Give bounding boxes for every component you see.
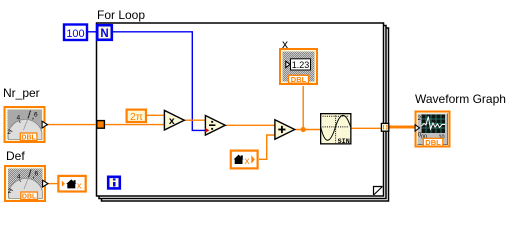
svg-text:100: 100	[66, 28, 84, 40]
svg-text:x: x	[169, 115, 175, 127]
svg-text:2: 2	[8, 188, 12, 195]
svg-text:DBL: DBL	[21, 135, 36, 142]
svg-text:1.23: 1.23	[292, 60, 310, 70]
svg-text:2π: 2π	[130, 111, 143, 123]
svg-text:6: 6	[34, 112, 38, 119]
svg-text:x: x	[245, 156, 250, 167]
svg-text:DBL: DBL	[291, 75, 307, 84]
svg-text:DBL: DBL	[425, 138, 441, 147]
svg-text:N: N	[100, 28, 108, 40]
svg-text:2: 2	[7, 129, 11, 136]
svg-text:DBL: DBL	[22, 194, 37, 201]
svg-text:SIN: SIN	[338, 138, 350, 146]
svg-text:4: 4	[17, 174, 21, 181]
svg-text:6: 6	[35, 171, 39, 178]
svg-text:4: 4	[17, 115, 21, 122]
svg-text:x: x	[77, 181, 82, 192]
